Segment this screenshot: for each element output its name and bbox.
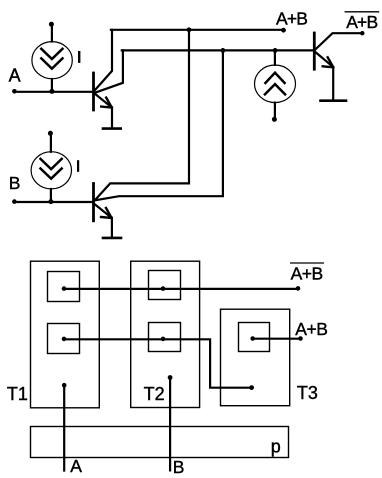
svg-text:T2: T2 xyxy=(144,384,165,404)
svg-text:A+B: A+B xyxy=(295,319,327,339)
svg-text:A: A xyxy=(70,456,82,476)
svg-text:A: A xyxy=(9,66,21,86)
svg-text:A+B: A+B xyxy=(291,264,323,284)
svg-text:T1: T1 xyxy=(7,384,28,404)
svg-text:B: B xyxy=(9,173,21,193)
svg-text:A+B: A+B xyxy=(276,9,307,29)
svg-text:T3: T3 xyxy=(297,383,318,403)
svg-text:p: p xyxy=(271,437,281,457)
svg-text:A+B: A+B xyxy=(346,12,377,32)
svg-text:B: B xyxy=(173,457,185,477)
